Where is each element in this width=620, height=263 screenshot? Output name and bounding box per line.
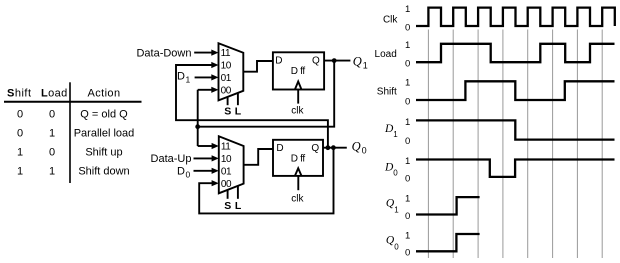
wire Data-Up to U3 input 10 [194, 157, 214, 159]
svg-text:00: 00 [221, 179, 232, 190]
svg-text:0: 0 [186, 170, 191, 180]
svg-text:1: 1 [405, 117, 410, 128]
flip-flop U4 clock triangle [295, 168, 302, 176]
svg-text:Data-Up: Data-Up [151, 153, 192, 165]
svg-text:01: 01 [221, 73, 232, 84]
mux U1 pin labels 11 10 01 00 [221, 48, 232, 96]
wire mux U1 output to U2 D [243, 61, 273, 72]
svg-text:Clk: Clk [383, 14, 398, 25]
svg-text:1: 1 [186, 74, 191, 84]
wire D0 to U3 input 01 [194, 170, 214, 172]
svg-text:1: 1 [17, 146, 23, 158]
svg-text:00: 00 [221, 85, 232, 96]
svg-text:D: D [177, 166, 185, 178]
flip-flop U4 pin labels [276, 143, 319, 205]
arrowhead U3 input 11 [212, 143, 219, 149]
svg-text:1: 1 [405, 4, 410, 15]
wire Q0 feedback to U1 input 10 [176, 65, 328, 148]
svg-text:1: 1 [405, 194, 410, 205]
waveform Shift [416, 81, 615, 100]
arrowhead U3 input 00 [212, 180, 219, 186]
svg-text:Load: Load [41, 88, 68, 100]
waveform Load [416, 44, 615, 62]
svg-text:clk: clk [291, 194, 304, 205]
waveform D1 [416, 120, 615, 139]
wire U3 select stub L [237, 186, 239, 199]
svg-text:0: 0 [49, 146, 55, 158]
svg-text:0: 0 [405, 248, 410, 259]
svg-text:Shift up: Shift up [85, 146, 122, 158]
svg-text:1: 1 [405, 230, 410, 241]
arrowhead U1 input 10 [211, 62, 218, 68]
wire Q1 feedback bus [198, 61, 335, 127]
svg-text:D: D [177, 70, 185, 82]
svg-text:0: 0 [405, 211, 410, 222]
arrowhead U1 input 11 [211, 50, 218, 56]
svg-text:Load: Load [375, 49, 397, 60]
svg-text:0: 0 [17, 127, 23, 139]
svg-text:D ff: D ff [291, 154, 306, 165]
svg-text:1: 1 [393, 130, 398, 139]
svg-text:11: 11 [221, 142, 231, 153]
mux U1 body [219, 43, 244, 100]
svg-text:1: 1 [405, 156, 410, 167]
svg-text:D: D [275, 56, 282, 67]
svg-text:0: 0 [362, 145, 367, 155]
timing gridline 5 [527, 30, 529, 259]
wire U4 Q output [323, 147, 347, 149]
flip-flop U2 body [273, 52, 324, 89]
svg-text:0: 0 [405, 136, 410, 147]
flip-flop U2 pin labels [275, 56, 320, 117]
svg-text:Q: Q [311, 143, 319, 154]
svg-text:10: 10 [221, 154, 232, 165]
junction node Q1-hold [195, 124, 200, 129]
junction node Q0 up [326, 145, 331, 150]
wire mux U3 output to U4 D [244, 149, 273, 165]
waveform Clk [416, 8, 615, 26]
svg-text:Data-Down: Data-Down [136, 47, 191, 59]
svg-text:Q: Q [353, 55, 362, 69]
wire Q0 hold feedback to U3 input 00 [199, 148, 333, 214]
timing gridline 8 [601, 30, 603, 259]
timing gridline 3 [477, 30, 479, 259]
svg-text:D: D [276, 143, 283, 154]
svg-text:Parallel load: Parallel load [74, 127, 135, 139]
wire U1 select stub L [237, 93, 239, 105]
svg-text:Shift: Shift [377, 86, 397, 97]
svg-text:S: S [224, 200, 231, 212]
arrowhead U1 input 00 [211, 87, 218, 93]
flip-flop U2 clock triangle [295, 82, 302, 90]
svg-text:clk: clk [291, 106, 304, 117]
svg-text:0: 0 [49, 108, 55, 120]
svg-text:1: 1 [405, 78, 410, 89]
waveform Q1 [416, 197, 480, 214]
timing gridline 1 [427, 30, 429, 259]
waveform Q0 [416, 234, 480, 251]
svg-text:0: 0 [405, 96, 410, 107]
svg-text:Q = old Q: Q = old Q [80, 108, 128, 120]
timing gridline 2 [452, 30, 454, 259]
svg-text:Action: Action [88, 88, 121, 100]
svg-text:0: 0 [393, 169, 398, 178]
wire U3 select stub S [227, 190, 229, 199]
mux U3 pin labels 11 10 01 00 [221, 142, 232, 190]
mux U3 body [219, 136, 244, 193]
svg-text:0: 0 [17, 108, 23, 120]
wire Q1 hold net vertical to U1 input 00 and U3 input 11 [197, 90, 199, 146]
timing gridline 6 [552, 30, 554, 259]
svg-text:D ff: D ff [291, 66, 306, 77]
svg-text:01: 01 [221, 167, 232, 178]
junction node Q0 hold [331, 145, 336, 150]
svg-text:0: 0 [405, 173, 410, 184]
wire D1 to U1 input 01 [195, 76, 213, 78]
svg-text:Shift down: Shift down [78, 165, 129, 177]
svg-text:1: 1 [17, 165, 23, 177]
wire U2 clk stub [297, 90, 299, 104]
svg-text:Shift: Shift [7, 88, 32, 100]
arrowhead U3 input 10 [212, 155, 219, 161]
waveform D0 [416, 160, 615, 177]
svg-text:10: 10 [221, 61, 232, 72]
timing gridline 4 [502, 30, 504, 259]
wire U2 Q output [324, 60, 350, 62]
junction node Q1 output [332, 58, 337, 63]
svg-text:0: 0 [394, 243, 399, 252]
flip-flop U4 body [273, 140, 323, 176]
svg-text:11: 11 [221, 48, 231, 59]
svg-text:L: L [235, 200, 242, 212]
svg-text:L: L [235, 106, 242, 118]
wire stub into U1 input 00 [198, 89, 213, 91]
table column divider line [69, 82, 71, 183]
wire stub into U3 input 11 [198, 145, 213, 147]
table header underline [4, 101, 142, 103]
arrowhead U3 input 01 [212, 168, 219, 174]
svg-text:0: 0 [405, 59, 410, 70]
svg-text:Q: Q [352, 139, 361, 153]
svg-text:1: 1 [49, 165, 55, 177]
svg-text:1: 1 [363, 61, 368, 71]
svg-text:1: 1 [405, 40, 410, 51]
wire U4 clk stub [297, 176, 299, 190]
wire Data-Down to U1 input 11 [194, 52, 213, 54]
svg-text:1: 1 [49, 127, 55, 139]
wire U1 select stub S [227, 97, 229, 105]
timing gridline 7 [576, 30, 578, 259]
svg-text:S: S [224, 106, 231, 118]
arrowhead U1 input 01 [211, 74, 218, 80]
svg-text:0: 0 [405, 22, 410, 33]
svg-text:1: 1 [394, 206, 399, 215]
level labels 1/0 per row [405, 4, 410, 259]
svg-text:Q: Q [312, 56, 320, 67]
